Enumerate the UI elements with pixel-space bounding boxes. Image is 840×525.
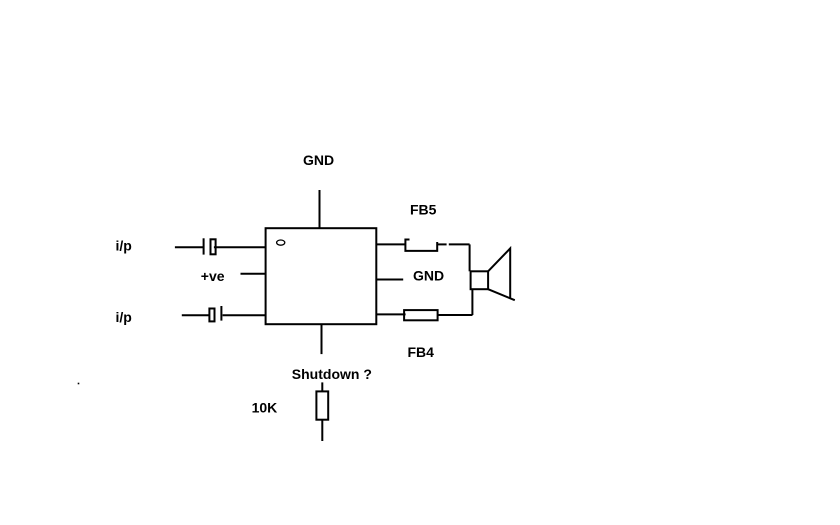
svg-text:FB5: FB5: [410, 201, 437, 217]
svg-text:FB4: FB4: [408, 344, 435, 360]
wire speaker box down to FB4 wire: [471, 289, 473, 315]
IC U1 body: [266, 228, 377, 324]
stray dot mark: [78, 383, 80, 385]
wire GND top to IC: [319, 190, 321, 228]
capacitor C2 left plate (box): [209, 309, 214, 322]
svg-text:10K: 10K: [252, 399, 278, 415]
wire +ve stub to IC: [241, 273, 266, 275]
speaker LS1 box: [471, 271, 489, 289]
wire C1 to IC: [214, 246, 266, 248]
wire IC shutdown pin down: [321, 324, 323, 354]
wire shutdown to resistor: [321, 382, 323, 391]
IC pin-1 marker circle: [277, 240, 285, 245]
wire IC to FB5: [376, 243, 405, 245]
wire C2 to IC: [223, 314, 266, 316]
wire gap to corner: [449, 243, 470, 245]
svg-text:Shutdown ?: Shutdown ?: [292, 366, 372, 382]
wire corner down to speaker: [469, 244, 471, 271]
svg-text:i/p: i/p: [116, 237, 132, 253]
wire top input left segment: [175, 246, 204, 248]
wire resistor down: [321, 420, 323, 441]
wire FB5 to gap: [437, 243, 446, 245]
svg-text:GND: GND: [413, 268, 444, 284]
wire IC GND stub: [376, 279, 403, 281]
wire bottom input left segment: [182, 314, 210, 316]
svg-text:i/p: i/p: [116, 309, 132, 325]
capacitor C1 right plate (box): [211, 239, 216, 254]
speaker LS1 cone: [488, 248, 515, 300]
wire IC to FB4: [376, 313, 405, 315]
capacitor C1 left plate: [203, 238, 205, 254]
svg-text:GND: GND: [303, 152, 334, 168]
ferrite bead FB5 body (open sketch): [405, 240, 437, 251]
capacitor C2 right plate: [220, 306, 222, 321]
svg-text:+ve: +ve: [201, 268, 225, 284]
ferrite bead FB4 body: [404, 310, 438, 320]
wire FB4 to speaker return: [438, 314, 473, 316]
resistor R1 10K body: [316, 391, 328, 419]
